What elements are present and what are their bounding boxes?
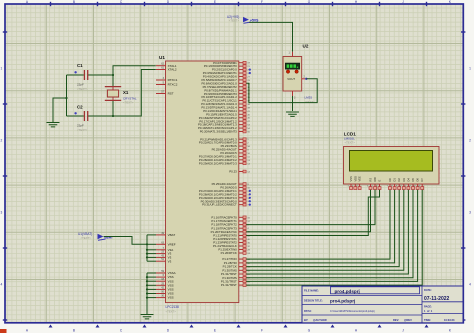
U1 right pins P0.21-P0.29 [199,137,251,173]
wire VSS bus stub [147,297,156,299]
junction V3 bus [146,243,148,245]
U1 right pins P1.16-P1.31 [211,215,251,287]
svg-text:LPC2138: LPC2138 [166,305,180,309]
svg-text:1: 1 [469,67,471,71]
svg-text:U2: U2 [303,44,309,49]
wire VSS bus stub [147,280,156,282]
junction crystal bottom / XTAL2 net [112,115,114,117]
wire LCD D1 to U1 [246,190,394,263]
svg-text:+5VS: +5VS [250,18,259,22]
power terminal VBAT (left) [78,232,114,241]
svg-text:D2: D2 [397,178,401,182]
svg-text:E: E [378,180,382,182]
ground (U1 VSS) [141,315,154,319]
junction VSS bus [146,292,148,294]
svg-text:4: 4 [1,283,3,287]
power terminal +5V (top) [227,15,259,24]
wire LCD D3 to U1 [246,190,403,271]
wire V3 bus stub [147,249,156,251]
svg-text:VBAT: VBAT [168,233,176,237]
svg-text:F: F [261,329,263,333]
svg-text:VREF: VREF [168,242,176,246]
crystal X1 [105,75,137,116]
junction bus/ground [65,97,67,99]
junction VSS bus [146,284,148,286]
svg-text:VSS: VSS [349,176,353,181]
wire VSS bus stub [147,272,156,274]
wire LCD D7 to U1 [246,190,422,285]
svg-text:DESIGN TITLE:: DESIGN TITLE: [304,299,323,303]
svg-text:07-11-2022: 07-11-2022 [424,296,450,302]
svg-text:D0: D0 [388,178,392,182]
svg-text:VEE: VEE [358,176,362,181]
wire XTAL2 [113,70,156,117]
U1 left ground pins VSSA VSS [156,270,176,300]
svg-text:2: 2 [469,139,471,143]
svg-text:<TEXT>: <TEXT> [81,236,92,240]
svg-text:PAGE:: PAGE: [424,305,432,309]
svg-text:3: 3 [469,211,471,215]
wire VSS bus stub [147,293,156,295]
svg-text:2: 2 [1,139,3,143]
svg-text:pro4.pdsprj: pro4.pdsprj [335,289,360,294]
svg-text:PATH:: PATH: [304,309,312,313]
svg-text:1: 1 [1,67,3,71]
U1 left power pins VBAT VREF V3A V3 [156,232,176,263]
svg-text:<TEXT>: <TEXT> [77,128,88,132]
svg-text:<TEXT>: <TEXT> [229,19,240,23]
wire VSS bus stub [147,276,156,278]
wire LCD D6 to U1 [246,190,417,282]
wire C1-C2 left bus [66,75,68,116]
svg-text:U1: U1 [159,55,165,60]
junction VSS bus [146,280,148,282]
wire V3 bus stub [147,253,156,255]
svg-text:V3: V3 [168,259,172,263]
capacitor C1 [67,63,114,91]
svg-text:1 of 1: 1 of 1 [424,309,433,313]
svg-text:<TEXT>: <TEXT> [345,140,356,144]
wire VSS bus stub [147,284,156,286]
wire LCD RW to U1 [246,190,375,225]
svg-text:RTXC1: RTXC1 [168,78,178,82]
junction crystal top / XTAL1 net [112,74,114,76]
wire VBAT to U1 [104,237,147,245]
svg-text:RW: RW [373,177,377,182]
svg-text:pro4.pdsprj: pro4.pdsprj [330,299,355,304]
microcontroller U1 (LPC2138) body [159,55,239,314]
U1 left pins XTAL1 XTAL2 RTXC1 RTXC2 RST [156,63,178,96]
svg-text:REV:: REV: [393,318,399,322]
ground (U2) [286,112,299,116]
svg-text:D6: D6 [416,178,420,182]
wire LCD D2 to U1 [246,190,399,267]
sensor U2 LM35 [283,44,315,104]
capacitor C2 [67,105,114,132]
wire V3 bus stub [147,234,156,236]
wire U2 pin3 to ground [292,96,294,111]
svg-text:<TEXT>: <TEXT> [166,310,177,314]
svg-text:P0.31/UP_LED/CONNECT: P0.31/UP_LED/CONNECT [202,203,237,207]
svg-text:B: B [73,329,75,333]
svg-text:DATE:: DATE: [424,288,432,292]
wire V3 bus stub [147,243,156,245]
svg-text:P0.23: P0.23 [229,170,237,174]
svg-text:LCD1: LCD1 [344,131,356,136]
svg-text:VBAT: VBAT [104,235,114,239]
svg-text:E: E [214,329,216,333]
wire V3 bus stub [147,256,156,258]
svg-text:VSS: VSS [168,296,174,300]
junction V3 bus [146,256,148,258]
svg-text:<TEXT>: <TEXT> [305,100,316,104]
wire LCD RS to U1 [246,190,370,232]
svg-text:D4: D4 [406,178,410,182]
svg-text:3: 3 [1,211,3,215]
wire +5V to U2 pin1 [249,22,292,51]
wire to ground from bus [53,98,67,122]
svg-text:@AUTHOR: @AUTHOR [313,318,327,322]
wire LCD D0 to U1 [246,190,390,259]
wire XTAL1 [113,66,156,75]
svg-text:P0.29/AD0.2/CAP0.3/MAT0.3: P0.29/AD0.2/CAP0.3/MAT0.3 [199,161,237,165]
svg-text:RS: RS [369,178,373,182]
svg-text:E: E [214,0,216,4]
junction V3 bus [146,249,148,251]
svg-text:F: F [261,0,263,4]
wire LCD D5 to U1 [246,190,413,278]
svg-text:B: B [73,0,75,4]
svg-text:D5: D5 [411,178,415,182]
svg-text:X1: X1 [123,90,129,95]
svg-text:D1: D1 [393,178,397,182]
svg-text:P0.20/MAT1.3/SSEL1/EINT3: P0.20/MAT1.3/SSEL1/EINT3 [200,130,237,134]
wire U1 VSS bus [146,273,148,314]
wire U2 VOUT to U1 AD0 [246,79,317,103]
svg-text:P1.26/RTCK: P1.26/RTCK [221,251,237,255]
U1 right pins P0.25-P0.31 [199,182,251,207]
svg-text:C2: C2 [77,105,83,110]
svg-text:RTXC2: RTXC2 [168,83,178,87]
junction V3 bus [146,253,148,255]
wire U1 V3 bus [146,235,148,261]
svg-text:RST: RST [168,92,174,96]
junction VSS bus [146,288,148,290]
svg-text:D3: D3 [402,178,406,182]
svg-text:VOUT: VOUT [287,77,295,81]
wire LCD E to U1 [246,190,379,236]
LCD1 pins [348,176,425,190]
svg-text:@REV: @REV [404,318,412,322]
wire VSS bus stub [147,288,156,290]
svg-text:10:33:33: 10:33:33 [444,318,455,322]
U1 right pins P0.0-P0.20 [198,61,251,134]
svg-text:<TEXT>: <TEXT> [77,87,88,91]
display LCD1 LM016L [344,131,440,184]
junction VSS bus [146,297,148,299]
svg-text:TIME:: TIME: [424,318,431,322]
svg-text:BY:: BY: [304,318,308,322]
svg-text:C:\Users\R187S\Documents\pro4.: C:\Users\R187S\Documents\pro4.pdsprj [330,310,375,313]
svg-text:VDD: VDD [353,176,357,182]
svg-text:D7: D7 [420,178,424,182]
svg-text:XTAL2: XTAL2 [168,68,177,72]
ground (oscillator) [47,123,60,127]
svg-text:FILE NAME:: FILE NAME: [304,289,319,293]
svg-text:4: 4 [469,283,471,287]
wire LCD D4 to U1 [246,190,408,274]
wire V3 bus stub [147,260,156,262]
title block [302,286,463,323]
svg-text:<TEXT>: <TEXT> [123,101,134,105]
junction VSS bus [146,276,148,278]
svg-text:C1: C1 [77,63,83,68]
svg-text:P1.31/TRST: P1.31/TRST [221,283,237,287]
